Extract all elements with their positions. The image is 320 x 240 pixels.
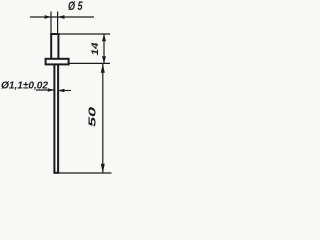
extension line for 50 bottom (from rod end) [59, 172, 112, 174]
svg-text:Ø 5: Ø 5 [68, 0, 83, 13]
extension line above head left (Ø5) [50, 12, 52, 35]
extension line for 14 bottom / 50 top (from flange) [68, 62, 110, 64]
svg-text:Ø1,1±0,02: Ø1,1±0,02 [1, 81, 48, 92]
rod left side [53, 64, 55, 172]
arrowhead Ø1,1 right (points left at rod) [58, 89, 64, 92]
thin lines: extension / dimension / leader [30, 12, 112, 174]
arrowhead 50 bottom (points down) [101, 164, 105, 173]
rod right side [57, 64, 59, 172]
extension line above head right (Ø5) [57, 12, 59, 35]
leader line Ø1,1 right tail [58, 90, 71, 92]
thick contour lines: pin body [46, 34, 69, 173]
svg-text:14: 14 [90, 42, 101, 56]
arrowhead 14 top (points up) [102, 34, 106, 41]
extension line for 14 top (from head top edge) [58, 33, 110, 35]
dimension line 14 [103, 34, 105, 63]
arrowhead 50 top (points up) [101, 63, 105, 72]
arrowhead Ø5 right (points left) [58, 15, 65, 19]
svg-text:50: 50 [87, 106, 98, 127]
dimension line Ø5 [30, 16, 94, 18]
arrowhead Ø1,1 left (points right at rod) [48, 88, 54, 91]
flange [46, 59, 69, 65]
arrowhead Ø5 left (points right) [45, 15, 51, 19]
head left side [50, 34, 52, 59]
arrowhead 14 bottom (points down) [102, 56, 106, 63]
dimension line 50 [102, 63, 104, 173]
rod bottom edge [53, 172, 59, 174]
head top edge [50, 33, 59, 35]
head right side [57, 34, 59, 59]
leader line Ø1,1 left [36, 89, 54, 91]
